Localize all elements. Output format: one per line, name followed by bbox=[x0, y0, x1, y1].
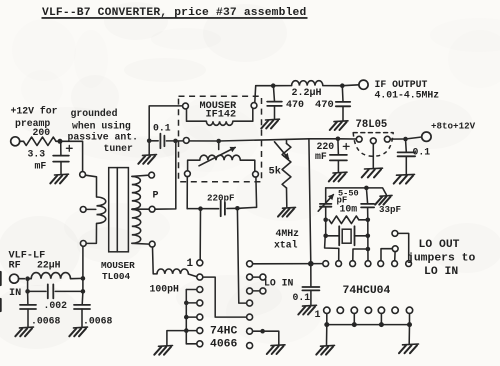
wire 220mF to ground bbox=[337, 160, 339, 171]
pins 74HCU04 bottom row bbox=[324, 307, 413, 313]
crystal 4MHz bbox=[339, 226, 354, 245]
pin IF142 top-left bbox=[183, 103, 189, 109]
post LO jumper A bbox=[392, 231, 398, 237]
resistor 200 bbox=[24, 137, 57, 145]
wire secondary bottom to coil bbox=[153, 247, 158, 274]
node 10m left bbox=[323, 218, 328, 223]
wire .002 left lead bbox=[28, 290, 46, 292]
wire .0068R to ground bbox=[81, 309, 83, 327]
wire 10m right bbox=[359, 219, 368, 221]
wire 470-left lead bbox=[273, 86, 274, 102]
pin 78L05 input bbox=[356, 136, 362, 142]
label 5k bbox=[269, 166, 281, 178]
label 4.01-4.5MHz bbox=[375, 90, 440, 101]
wire 470-right to ground bbox=[342, 106, 344, 120]
label IF OUTPUT bbox=[375, 79, 428, 90]
svg-text:470: 470 bbox=[315, 99, 334, 111]
capacitor .0068 left bbox=[20, 305, 36, 309]
node bus3 bbox=[184, 328, 189, 333]
wire hbus left ground bbox=[326, 325, 328, 345]
svg-text:4066: 4066 bbox=[210, 338, 238, 350]
label +12V for preamp bbox=[11, 106, 58, 130]
wire main rail bbox=[176, 139, 357, 141]
label 220pF bbox=[207, 192, 235, 203]
wire rail to 2.2uH bbox=[273, 85, 291, 87]
wire 78L05 gnd pin bbox=[372, 144, 374, 168]
post antenna C (primary bottom) bbox=[80, 241, 86, 247]
ground HCU04 left bbox=[316, 345, 334, 354]
wire RF node down bbox=[27, 279, 29, 292]
node 12V junction bbox=[58, 139, 63, 144]
wire IF can pin to 0.1 node bbox=[149, 106, 182, 141]
wire 5k to ground bbox=[286, 188, 288, 207]
ground 470 left bbox=[261, 119, 279, 128]
label 220 mF bbox=[315, 141, 334, 162]
ground 0.1 regulator bbox=[394, 174, 415, 183]
wire LO IN pair lower bbox=[253, 290, 260, 292]
transformer T1 primary winding bbox=[97, 197, 106, 223]
wire terminal to R200 bbox=[20, 140, 24, 142]
node hbus2 bbox=[352, 322, 357, 327]
node xtal left bbox=[323, 234, 328, 239]
node LO 0.1 bbox=[308, 261, 314, 267]
svg-text:4.01-4.5MHz: 4.01-4.5MHz bbox=[375, 90, 440, 101]
post LO jumper B bbox=[392, 246, 398, 252]
node 220pF right bbox=[235, 206, 240, 211]
capacitor 0.1 regulator bbox=[398, 152, 416, 156]
node .002 left bbox=[25, 289, 30, 294]
terminal +12V preamp bbox=[11, 137, 20, 146]
pins 74HCU04 row bbox=[323, 261, 412, 267]
polarity + of C 3.3mF bbox=[66, 145, 72, 151]
label 100pH bbox=[150, 284, 180, 295]
node variable-coil tap bbox=[216, 139, 221, 144]
arrow trimmer bbox=[318, 195, 333, 212]
wire node to IF OUTPUT terminal bbox=[342, 84, 359, 87]
label .002 bbox=[44, 300, 68, 311]
label 200 bbox=[33, 127, 51, 138]
wire xtal right lead bbox=[355, 235, 368, 237]
wire node to C0.1 bbox=[149, 140, 158, 142]
capacitor 220pF bbox=[221, 201, 225, 216]
wire rail to 5k bbox=[286, 140, 288, 144]
wire left pin to 220pF bbox=[187, 208, 218, 210]
wire 0.1 node to ground bbox=[148, 141, 150, 154]
wire rail to ground bbox=[366, 188, 386, 195]
label 470 right bbox=[315, 99, 334, 111]
wire 4066 gnd bus bbox=[185, 290, 187, 344]
wire IF can to LC rail bbox=[255, 86, 273, 103]
label pF bbox=[337, 196, 348, 206]
inductor 22uH bbox=[31, 273, 70, 279]
node 22uH right bbox=[81, 276, 86, 281]
terminal RF IN bbox=[10, 274, 19, 283]
pins LO IN pair lower bbox=[260, 288, 266, 294]
label 5-50 bbox=[338, 188, 359, 198]
resistor 5k bbox=[282, 144, 291, 189]
wire node right and down to post bbox=[60, 141, 83, 171]
wire branch to pin3 bbox=[353, 249, 368, 261]
svg-text:78L05: 78L05 bbox=[356, 119, 388, 131]
label 0.1 coupling bbox=[153, 123, 171, 134]
wire osc right vertical bbox=[367, 220, 369, 249]
wire 470-right lead bbox=[341, 86, 344, 102]
arrow 5k wiper bbox=[275, 142, 289, 159]
note grounded when using passive ant. tuner bbox=[68, 108, 139, 154]
label .0068 left bbox=[31, 316, 61, 327]
capacitor 470 left bbox=[267, 102, 282, 106]
terminal +8 to +12V bbox=[422, 132, 431, 141]
wire C0.1 to mixer node bbox=[166, 140, 173, 142]
wire C3.3 to ground bbox=[60, 162, 62, 174]
wire tap stub bbox=[218, 141, 220, 150]
label 33pF bbox=[379, 204, 401, 215]
svg-text:100pH: 100pH bbox=[150, 284, 180, 295]
wire primary bottom lead bbox=[86, 223, 96, 243]
label 0.1 LO bbox=[293, 292, 311, 303]
wire can pin left down bbox=[186, 177, 188, 209]
svg-text:IF OUTPUT: IF OUTPUT bbox=[375, 79, 428, 90]
label VLF-LF RF IN bbox=[9, 251, 46, 300]
ground 78L05 bbox=[362, 168, 383, 177]
post antenna A bbox=[80, 172, 86, 178]
node hbus3 bbox=[379, 322, 384, 327]
label 10m bbox=[340, 204, 358, 215]
wire R200 to node bbox=[56, 140, 60, 142]
pins 74HC4066 right column bbox=[247, 261, 253, 349]
node +8V 0.1 bbox=[403, 137, 408, 142]
wire jumper B left bbox=[381, 249, 392, 261]
wire 2.2uH to node bbox=[323, 85, 343, 87]
label 0.1 at regulator bbox=[413, 147, 431, 158]
wire secondary bottom lead bbox=[132, 242, 150, 245]
ground 4066 bus bbox=[154, 346, 172, 355]
wire 78L05 out to +8V node bbox=[390, 138, 403, 140]
ground R6 bbox=[267, 345, 285, 354]
wire jumper A bbox=[398, 233, 409, 260]
node 220mF bbox=[336, 137, 341, 142]
wire .002 right lead bbox=[55, 290, 83, 292]
wire secondary top lead bbox=[132, 175, 149, 176]
wire LO IN pair upper bbox=[253, 276, 260, 278]
post antenna B (tap) bbox=[80, 207, 86, 213]
wire LO 0.1 to ground bbox=[310, 290, 312, 304]
wire node to +8-12V terminal bbox=[406, 137, 422, 139]
capacitor 220mF bbox=[330, 155, 347, 161]
wire 220pF-left down to 4066 pin1 bbox=[199, 209, 201, 260]
wire jumper B down bbox=[394, 252, 396, 261]
arrow of tunable inductor bbox=[199, 147, 235, 166]
inductor 100pH bbox=[157, 269, 188, 274]
ground 5k bbox=[278, 207, 296, 216]
wire bus to ground bbox=[167, 331, 186, 345]
pin secondary tap P bbox=[149, 206, 155, 212]
capacitor .002 bbox=[48, 284, 54, 298]
svg-text:mF: mF bbox=[35, 161, 47, 172]
wire tunable coil left lead bbox=[188, 160, 200, 171]
label pin1 74HCU04 bbox=[315, 310, 321, 321]
inductor IF142 winding bbox=[206, 121, 232, 125]
wire 220pF right bbox=[227, 207, 241, 209]
pins LO IN pair upper bbox=[260, 274, 266, 280]
pin 78L05 gnd bbox=[370, 138, 376, 144]
wire terminal to node bbox=[19, 278, 25, 280]
wire secondary tap lead bbox=[132, 208, 149, 210]
label pin1 74HC4066 bbox=[187, 258, 194, 270]
wire IF142 coil bbox=[187, 108, 253, 121]
wire node to C3.3 top bbox=[60, 141, 62, 155]
wire post A to primary top bbox=[86, 175, 97, 197]
ground 220mF bbox=[329, 172, 347, 181]
title text bbox=[42, 7, 308, 19]
pin secondary bottom bbox=[149, 241, 155, 247]
node 220pF left bbox=[198, 206, 203, 211]
ground HCU04 right bbox=[399, 344, 419, 353]
label LO IN bbox=[264, 278, 294, 289]
ground .0068 right bbox=[69, 327, 87, 336]
wire osc left vertical bbox=[325, 220, 339, 261]
pin secondary top bbox=[149, 172, 155, 178]
node bus1 bbox=[184, 301, 189, 306]
ground 0.1 input bbox=[138, 155, 156, 164]
wire to .0068 left bbox=[27, 291, 29, 304]
transformer T1 secondary upper bbox=[132, 176, 141, 209]
wire 22uH node down bbox=[82, 278, 84, 291]
svg-text:xtal: xtal bbox=[274, 240, 298, 251]
wire coil to 4066 L2 bbox=[188, 274, 196, 277]
resistor 10m bbox=[329, 216, 359, 224]
regulator 78L05 outline bbox=[353, 133, 393, 157]
pins 74HC4066 left column bbox=[197, 260, 203, 347]
pin IF142 top-right bbox=[251, 103, 257, 109]
pin IF142 bottom-left bbox=[185, 171, 191, 177]
wire 33pF to node bbox=[367, 207, 369, 219]
svg-text:4MHz: 4MHz bbox=[276, 228, 300, 239]
node 470-right bbox=[340, 83, 345, 88]
label 74HCU04 bbox=[343, 285, 391, 297]
inductor tunable in IF142 can bbox=[200, 155, 241, 160]
inductor 2.2uH bbox=[292, 81, 323, 86]
wire xtal buffer line bbox=[309, 139, 311, 264]
svg-text:TL004: TL004 bbox=[102, 271, 131, 282]
capacitor 470 right bbox=[336, 102, 350, 106]
ground .0068 left bbox=[15, 327, 33, 336]
shield can MOUSER IF142 outline bbox=[179, 96, 262, 182]
wire post C down to RF input node bbox=[82, 246, 84, 278]
wire xtal left lead bbox=[326, 235, 340, 237]
capacitor 0.1 input bbox=[160, 134, 164, 149]
label 2.2uH bbox=[292, 88, 322, 99]
terminal IF OUTPUT bbox=[359, 80, 368, 89]
node RF in bbox=[25, 276, 30, 281]
ground 3.3mF bbox=[50, 174, 68, 183]
wire tunable coil right lead bbox=[240, 160, 255, 171]
wire 4066 gnd stubs bbox=[186, 290, 197, 344]
svg-text:P: P bbox=[153, 191, 159, 202]
wire 220mF lead bbox=[337, 139, 340, 155]
wire R6 to ground bbox=[253, 331, 279, 344]
capacitor 3.3mF bbox=[53, 156, 69, 162]
label MOUSER TL004 bbox=[101, 260, 135, 282]
label 470 left bbox=[286, 100, 304, 111]
label 74HC 4066 bbox=[210, 326, 238, 351]
svg-text:470: 470 bbox=[286, 100, 304, 111]
svg-text:220pF: 220pF bbox=[207, 192, 235, 203]
label 78L05 bbox=[356, 119, 388, 131]
capacitor 0.1 LO bbox=[302, 287, 319, 290]
ground 0.1 LO bbox=[298, 305, 316, 314]
wire 220pF-right down to 4066 R4 bbox=[237, 208, 246, 303]
wire P tap up to mixer input node bbox=[155, 141, 176, 209]
pin IF142 bottom-right bbox=[253, 171, 259, 177]
svg-text:2.2μH: 2.2μH bbox=[292, 88, 322, 99]
wire LO line bbox=[252, 263, 322, 265]
label .0068 right bbox=[83, 316, 113, 327]
svg-text:3.3: 3.3 bbox=[28, 149, 46, 160]
wire trimmer bottom bbox=[325, 207, 327, 220]
capacitor .0068 right bbox=[74, 305, 90, 309]
node bus2 bbox=[184, 315, 189, 320]
label 22uH bbox=[37, 260, 61, 271]
label P bbox=[153, 191, 159, 202]
label MOUSER IF142 bbox=[200, 101, 238, 121]
wire 470-left to ground bbox=[274, 106, 276, 119]
wire L2 to R5 bbox=[203, 277, 247, 317]
wire 0.1reg to ground bbox=[405, 156, 407, 174]
wire tap post to primary bbox=[86, 208, 96, 210]
svg-text:10m: 10m bbox=[340, 204, 358, 215]
wire osc top rail bbox=[326, 187, 367, 189]
node 0.1 left bbox=[147, 139, 152, 144]
node osc rail bbox=[364, 186, 369, 191]
wire .0068L to ground bbox=[27, 309, 29, 327]
label 4MHz xtal bbox=[274, 228, 299, 251]
node 470-left bbox=[271, 83, 276, 88]
node R6 gnd bbox=[260, 329, 265, 334]
node osc right branch bbox=[366, 247, 371, 252]
node 10m right bbox=[366, 218, 371, 223]
capacitor 33pF bbox=[361, 204, 374, 208]
wire can pin right down bbox=[240, 177, 256, 208]
node xtal right bbox=[366, 234, 371, 239]
wire hbus right ground bbox=[408, 325, 410, 344]
wire trimmer top bbox=[325, 188, 327, 204]
pin 78L05 output bbox=[384, 136, 390, 142]
wire 33pF branch bbox=[366, 188, 367, 204]
label LO OUT jumpers to LO IN bbox=[407, 239, 476, 278]
pin IF142 on rail bbox=[183, 138, 189, 144]
svg-text:1: 1 bbox=[187, 258, 194, 270]
label +8to+12V bbox=[431, 121, 476, 132]
polarity + of 220mF bbox=[343, 144, 349, 150]
wire node to 22uH bbox=[28, 278, 32, 280]
label 3.3 mF bbox=[28, 149, 47, 172]
svg-text:74HCU04: 74HCU04 bbox=[343, 285, 391, 297]
scan edge artifact bbox=[0, 272, 2, 311]
node hbus1 bbox=[324, 322, 329, 327]
wire 22uH to node bbox=[71, 277, 83, 279]
wire branch to pin4 bbox=[367, 249, 369, 261]
wire HCU04 gnd bus bbox=[327, 324, 410, 326]
transformer T1 core bbox=[109, 168, 129, 252]
wire LO 0.1 lead bbox=[310, 264, 312, 287]
svg-text:33pF: 33pF bbox=[379, 204, 401, 215]
node mixer-left bbox=[173, 139, 178, 144]
svg-text:.0068: .0068 bbox=[83, 316, 113, 327]
wire 0.1reg lead bbox=[405, 139, 408, 152]
capacitor trimmer 5-50pF bbox=[320, 204, 332, 207]
ground 470 right bbox=[330, 121, 348, 130]
node hbus4 bbox=[407, 322, 412, 327]
transformer T1 secondary lower bbox=[132, 209, 141, 243]
ground osc rail bbox=[375, 195, 392, 204]
wire to .0068 right bbox=[81, 291, 84, 304]
wire HCU04 stubs bbox=[327, 313, 410, 324]
node .002 right bbox=[81, 289, 86, 294]
